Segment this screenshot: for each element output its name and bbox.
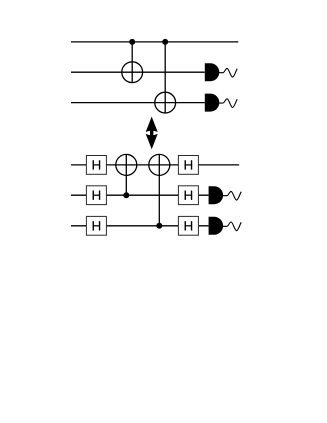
bottom circuit: H gate q0 left bbox=[86, 156, 106, 175]
top circuit: CNOT1 target on q1 bbox=[122, 62, 143, 83]
bottom circuit: CNOT2 vertical connector bbox=[158, 154, 160, 225]
top circuit: wire q1 bbox=[71, 71, 205, 73]
bottom circuit: H gate q1 left bbox=[86, 186, 106, 205]
bottom circuit: CNOT1 target on q0 bbox=[116, 154, 137, 175]
bottom circuit: squiggle on q2 bbox=[223, 222, 241, 231]
top circuit: squiggle on q2 bbox=[219, 99, 237, 108]
bottom circuit: CNOT2 target on q0 bbox=[149, 154, 170, 175]
bottom circuit: H gate q2 right bbox=[178, 216, 198, 235]
top circuit: wire q0 bbox=[71, 41, 238, 43]
bottom circuit: CNOT1 control dot on q1 bbox=[123, 192, 129, 198]
bottom circuit: CNOT2 control dot on q2 bbox=[156, 223, 162, 229]
top circuit: CNOT2 target on q2 bbox=[155, 92, 176, 113]
bottom circuit: H gate q1 right bbox=[178, 186, 198, 205]
top circuit: CNOT1 vertical connector bbox=[131, 42, 133, 83]
top circuit: wire q2 bbox=[71, 102, 205, 104]
top circuit: detector on q1 bbox=[205, 63, 220, 81]
top circuit: detector on q2 bbox=[205, 94, 220, 112]
bottom circuit: wire q0 bbox=[71, 164, 239, 166]
bottom circuit: wire q2 bbox=[71, 225, 209, 227]
equivalence double arrow bbox=[146, 117, 158, 150]
bottom circuit: detector on q2 bbox=[209, 217, 224, 235]
bottom circuit: detector on q1 bbox=[209, 186, 224, 204]
top circuit: squiggle on q1 bbox=[219, 68, 237, 77]
bottom circuit: H gate q2 left bbox=[86, 216, 106, 235]
top circuit: CNOT2 vertical connector bbox=[164, 42, 166, 113]
bottom circuit: H gate q0 right bbox=[178, 156, 198, 175]
bottom circuit: squiggle on q1 bbox=[223, 191, 241, 200]
top circuit: CNOT2 control dot on q0 bbox=[162, 39, 168, 45]
bottom circuit: CNOT1 vertical connector bbox=[125, 154, 127, 195]
bottom circuit: wire q1 bbox=[71, 194, 209, 196]
top circuit: CNOT1 control dot on q0 bbox=[129, 39, 135, 45]
